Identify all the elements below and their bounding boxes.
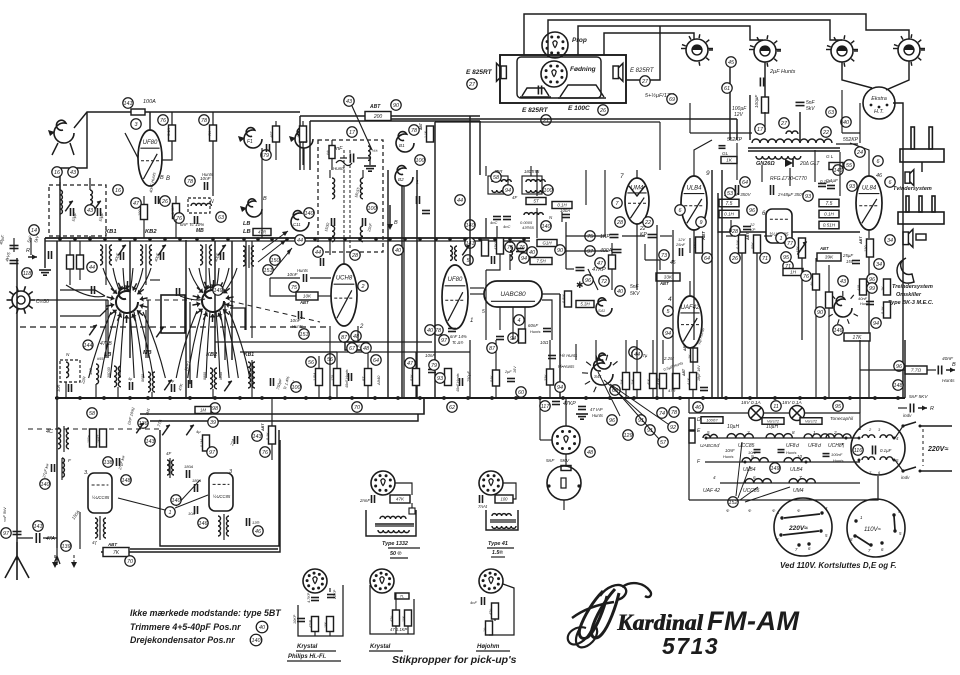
svg-text:2µF: 2µF	[504, 370, 512, 374]
svg-text:34: 34	[876, 262, 882, 268]
wire am if top	[486, 166, 531, 176]
svg-text:6: 6	[889, 180, 892, 186]
trim ant1	[65, 201, 72, 212]
ref 46b	[693, 402, 703, 412]
resistor 01M L	[200, 435, 210, 451]
resistor 1M b	[631, 373, 641, 390]
wire v f	[626, 340, 637, 362]
ref 116	[853, 445, 863, 455]
svg-text:0.1H: 0.1H	[824, 212, 834, 217]
circled extra l	[885, 235, 895, 245]
note line1	[130, 608, 281, 618]
psu vert wires	[737, 143, 840, 196]
switch 220 bot	[901, 467, 952, 473]
svg-text:47K: 47K	[396, 497, 405, 502]
label 100A	[143, 99, 156, 105]
svg-text:4.7KP: 4.7KP	[307, 592, 311, 603]
wire ref1 lines	[118, 480, 208, 510]
speaker panel box	[500, 55, 626, 103]
logo monogram crossbar	[572, 602, 614, 618]
svg-text:40nF Hunts: 40nF Hunts	[456, 373, 460, 392]
svg-text:22: 22	[644, 220, 651, 226]
ref 96p	[747, 205, 757, 215]
label 2nF10	[127, 406, 136, 425]
svg-text:96: 96	[585, 278, 591, 284]
box 7.5 left	[719, 199, 739, 207]
ref 1ucc	[776, 233, 786, 243]
svg-text:KB2: KB2	[206, 352, 217, 358]
svg-text:UAF42: UAF42	[681, 305, 700, 311]
svg-text:67: 67	[349, 346, 356, 352]
svg-text:17K: 17K	[853, 335, 863, 341]
svg-text:151: 151	[264, 268, 273, 274]
svg-text:4ƒ: 4ƒ	[92, 540, 98, 545]
wire r76	[162, 112, 172, 160]
FM antenna	[48, 120, 74, 155]
wire x130	[129, 241, 131, 358]
svg-text:4: 4	[713, 475, 716, 480]
cap 01uF top	[820, 179, 835, 189]
plug 2pin body	[900, 149, 944, 162]
svg-text:1K5T: 1K5T	[97, 434, 101, 443]
label 1 b2	[416, 180, 419, 186]
svg-text:90: 90	[393, 103, 399, 109]
label Hojohm	[476, 644, 510, 651]
svg-text:UF80: UF80	[143, 140, 158, 146]
ref 140r	[465, 220, 475, 230]
mains trafo secondary	[756, 156, 801, 159]
svg-text:E 825RT: E 825RT	[522, 107, 549, 114]
ref 94b	[555, 382, 565, 392]
main bus dots	[55, 396, 900, 400]
ref 60b	[516, 387, 526, 397]
ref 6ul	[675, 205, 685, 215]
svg-text:GL: GL	[722, 151, 729, 156]
svg-text:96: 96	[749, 208, 755, 214]
svg-text:0.51H: 0.51H	[823, 223, 836, 228]
svg-text:1: 1	[780, 236, 783, 242]
cap 18uF	[697, 365, 708, 391]
heater row1	[705, 437, 860, 439]
dial lamp 1	[681, 34, 713, 66]
earth aerial	[5, 542, 29, 580]
svg-text:#800: #800	[219, 372, 223, 380]
svg-text:28: 28	[731, 229, 738, 235]
svg-text:4℗: 4℗	[810, 281, 814, 286]
svg-text:10K: 10K	[303, 294, 312, 299]
wire uaf links	[690, 170, 722, 398]
coil N	[188, 198, 214, 213]
svg-text:16V: 16V	[513, 366, 517, 373]
resistor 1M a	[620, 373, 630, 390]
svg-text:44: 44	[89, 265, 95, 271]
svg-text:129: 129	[624, 433, 633, 439]
svg-text:95: 95	[835, 404, 842, 410]
inner panel	[517, 57, 601, 98]
svg-text:Ved 110V. Kortsluttes D,E og: Ved 110V. Kortsluttes D,E og F.	[780, 561, 897, 570]
kp cap 10KP	[293, 614, 305, 624]
ho res B	[483, 621, 493, 635]
gang rect mid	[161, 295, 185, 333]
resistor heater	[754, 94, 769, 113]
drum coil bot	[858, 457, 896, 462]
dashed FM IF box	[318, 140, 383, 252]
svg-text:47KΩ: 47KΩ	[494, 240, 498, 250]
label 110V circ	[864, 527, 882, 533]
label 471KP	[390, 627, 407, 632]
coil row2 a	[742, 458, 768, 462]
svg-text:LB: LB	[243, 229, 251, 235]
dashed arrow a	[52, 555, 58, 568]
ref 78f	[669, 407, 679, 417]
wire psu v2	[690, 103, 860, 143]
ref 43b	[68, 167, 78, 177]
svg-text:117: 117	[541, 404, 551, 410]
wire mid h340	[215, 342, 470, 352]
ref 90d	[555, 245, 565, 255]
kr res B	[402, 610, 412, 626]
ref 96z	[894, 361, 904, 371]
dial lamp 3	[826, 35, 858, 67]
svg-text:10KP: 10KP	[293, 614, 297, 624]
wire abt200	[300, 115, 480, 117]
box 5T	[526, 198, 546, 205]
label 6 ucc	[762, 211, 766, 217]
lamp 18V b	[782, 400, 805, 421]
cap 47A	[36, 533, 55, 543]
note line3	[130, 634, 262, 646]
IF group 2	[140, 244, 166, 268]
svg-text:10µH: 10µH	[766, 424, 778, 430]
ref 100k	[291, 382, 301, 392]
svg-text:50 ℗: 50 ℗	[390, 551, 401, 557]
svg-text:39K: 39K	[825, 255, 834, 261]
label Ch30	[36, 299, 49, 305]
wire top mid	[497, 170, 537, 196]
label E100C	[568, 105, 590, 112]
svg-text:B: B	[166, 176, 170, 182]
svg-text:100: 100	[138, 209, 142, 216]
resistor 1K5T	[97, 429, 107, 447]
svg-text:43: 43	[840, 279, 846, 285]
svg-text:70: 70	[354, 405, 360, 411]
svg-text:KB2: KB2	[145, 229, 157, 235]
svg-text:3: 3	[747, 430, 750, 435]
wire top nest 3	[578, 26, 763, 55]
resistor 5T row	[362, 369, 372, 386]
ref 140m	[171, 495, 181, 505]
kr box	[395, 593, 409, 599]
svg-text:ABT: ABT	[261, 423, 265, 432]
heater row3	[720, 482, 860, 484]
svg-text:17: 17	[757, 127, 764, 133]
speaker left	[497, 63, 507, 81]
svg-text:200: 200	[373, 114, 383, 120]
svg-text:UF80: UF80	[448, 277, 463, 283]
tube UCC85 a	[88, 473, 112, 513]
cap 10nF u2a	[287, 268, 309, 282]
svg-text:1H: 1H	[790, 270, 797, 275]
svg-text:KP: KP	[750, 227, 756, 232]
svg-text:47A: 47A	[46, 536, 56, 542]
svg-text:0.1M: 0.1M	[736, 240, 740, 249]
svg-text:40: 40	[427, 328, 433, 334]
circled extra t	[85, 205, 95, 215]
svg-text:MB: MB	[196, 228, 204, 234]
circled extra c	[543, 185, 553, 195]
wire v c	[189, 384, 191, 398]
cap 100nF h	[823, 452, 844, 463]
wire row links	[66, 382, 213, 398]
fm if cap L	[324, 218, 334, 232]
label 5nF 5KV	[630, 284, 640, 297]
cap 40uF a	[0, 234, 18, 248]
svg-text:ABT: ABT	[659, 281, 669, 286]
ref 63m	[216, 212, 226, 222]
fm if cap R	[363, 218, 374, 233]
svg-text:6: 6	[679, 208, 682, 214]
svg-text:0680: 0680	[141, 374, 145, 382]
kp cap 22KP	[327, 589, 337, 600]
IF group 3	[200, 244, 226, 268]
ref 48t	[351, 331, 361, 341]
box outer rect	[101, 440, 280, 552]
coil 43nF55	[520, 213, 553, 230]
ref 118	[22, 268, 32, 278]
svg-text:97: 97	[209, 450, 216, 456]
label 220V circ	[788, 525, 808, 532]
coil 0680	[141, 372, 155, 392]
wire det2	[566, 222, 672, 290]
cap 40nF mix	[148, 172, 158, 204]
svg-text:44: 44	[457, 198, 463, 204]
svg-text:118: 118	[23, 271, 32, 277]
fm if coil R	[360, 178, 363, 199]
plug 3pin prong A	[906, 196, 909, 212]
svg-text:76: 76	[262, 450, 268, 456]
ref 76m	[174, 213, 184, 223]
svg-text:16: 16	[54, 170, 60, 176]
ref 148L	[121, 475, 131, 485]
svg-text:146: 146	[199, 521, 208, 527]
wire b2 drop	[403, 186, 405, 398]
box ABT39K	[817, 246, 841, 261]
svg-text:Tonecaphil: Tonecaphil	[830, 416, 854, 422]
svg-text:8: 8	[792, 430, 795, 435]
ref 26m	[160, 196, 170, 206]
ref 56b	[325, 354, 335, 364]
svg-text:UCH8¶: UCH8¶	[828, 443, 845, 449]
ref 78a	[199, 115, 209, 125]
cap 6nF	[180, 216, 204, 234]
ref 138	[103, 457, 113, 467]
svg-text:180A: 180A	[192, 478, 202, 483]
cap 100A det	[560, 208, 570, 218]
cap 25nF	[675, 237, 686, 256]
ref 140f	[304, 208, 314, 218]
psu bottom wires	[718, 220, 731, 398]
box 0.1H left	[719, 210, 739, 218]
svg-text:12V: 12V	[734, 112, 744, 118]
svg-text:58: 58	[493, 175, 499, 181]
ant coil 2	[90, 190, 101, 216]
ref 46L	[253, 526, 263, 536]
box vers b	[800, 418, 822, 425]
ref 27b	[640, 76, 650, 86]
ref 55	[844, 160, 854, 170]
svg-text:40: 40	[529, 250, 535, 256]
svg-text:4F: 4F	[166, 451, 171, 456]
arc link star1	[66, 285, 205, 300]
ref 21	[541, 115, 551, 125]
tube UL84 right	[856, 176, 882, 230]
wire x215	[214, 241, 216, 358]
svg-text:ABT: ABT	[746, 232, 750, 241]
svg-text:5.1K: 5.1K	[266, 432, 270, 440]
label 47K row	[177, 383, 184, 391]
label KB1	[105, 229, 117, 235]
plug 2pin prong B	[929, 127, 932, 149]
uabc wires	[470, 288, 552, 340]
label 5 UABC80 h	[700, 430, 720, 449]
wire v d	[251, 241, 253, 398]
svg-text:149: 149	[771, 466, 780, 472]
label 5nF5KV z	[909, 394, 928, 400]
ref 95h	[833, 401, 843, 411]
svg-text:98: 98	[212, 406, 218, 412]
trafo 4C	[46, 426, 69, 452]
coil row1 c	[804, 434, 829, 438]
wire mid verticals2	[657, 225, 673, 398]
svg-text:Vers?2: Vers?2	[767, 419, 780, 423]
dashed gang line low	[20, 326, 330, 328]
ref 87u	[339, 332, 349, 342]
svg-text:24: 24	[856, 150, 863, 156]
svg-text:Hunts: Hunts	[723, 454, 733, 459]
svg-text:UCC85: UCC85	[738, 443, 755, 449]
label KB2	[145, 229, 157, 235]
label Treinder1	[892, 284, 933, 290]
ref 74f	[657, 408, 667, 418]
resistor ABT130	[859, 236, 874, 257]
drum circle	[851, 421, 905, 475]
coil row2 b	[784, 458, 810, 462]
svg-text:47: 47	[597, 261, 604, 267]
am if extra	[510, 238, 537, 270]
coil 0800	[203, 368, 223, 389]
sel110 pins	[853, 513, 896, 546]
svg-text:152: 152	[729, 500, 738, 506]
label 552KP b	[836, 137, 859, 144]
svg-text:100: 100	[368, 206, 377, 212]
label RFG	[770, 176, 807, 182]
ref 63	[826, 107, 836, 117]
svg-text:0800: 0800	[203, 372, 207, 380]
svg-text:73: 73	[661, 253, 667, 259]
wire gang v1	[185, 240, 187, 398]
wire lamp feed	[729, 60, 731, 140]
svg-text:MB: MB	[143, 350, 152, 356]
gang wire orth1	[60, 290, 108, 316]
svg-text:ABT: ABT	[683, 343, 687, 352]
resistor ABT1K	[683, 343, 698, 362]
svg-text:100n: 100n	[87, 435, 91, 443]
label 150A	[71, 509, 81, 520]
ho wires	[489, 584, 514, 635]
svg-text:N: N	[210, 199, 214, 205]
svg-text:116: 116	[854, 448, 863, 454]
svg-text:30D30: 30D30	[107, 367, 111, 378]
svg-text:64: 64	[704, 256, 710, 262]
ref 141a	[123, 98, 133, 108]
svg-text:7.5H: 7.5H	[536, 259, 546, 264]
svg-text:4µ: 4µ	[196, 429, 201, 434]
ref 152	[728, 497, 738, 507]
wire tap	[860, 369, 936, 371]
svg-text:92: 92	[670, 425, 676, 431]
svg-text:5713: 5713	[662, 633, 719, 659]
svg-text:78: 78	[201, 118, 207, 124]
circled extra m	[455, 195, 465, 205]
svg-text:1K: 1K	[881, 286, 885, 291]
circled extra k	[847, 181, 857, 191]
arrows to C11	[258, 231, 292, 275]
wire am tie	[486, 218, 497, 238]
svg-text:140: 140	[542, 224, 551, 230]
svg-text:96: 96	[869, 277, 875, 283]
ant coil 1	[60, 190, 74, 236]
plug 3pin prong C	[932, 196, 935, 212]
svg-text:18V 0.1A: 18V 0.1A	[741, 400, 761, 406]
svg-text:Hunts: Hunts	[202, 172, 214, 177]
fan lines refs	[598, 372, 668, 439]
ref 129	[623, 430, 633, 440]
svg-text:Vers?2: Vers?2	[805, 419, 818, 423]
wire uabc	[470, 294, 560, 340]
svg-text:9: 9	[706, 170, 710, 177]
sel110 links	[856, 516, 895, 545]
svg-text:10nF: 10nF	[290, 318, 302, 323]
circled extra b	[503, 185, 513, 195]
curl C10	[289, 128, 313, 148]
label GL1K	[721, 151, 737, 164]
wire grid bus	[125, 133, 138, 158]
cap 10A	[188, 506, 198, 516]
big socket mid	[547, 466, 581, 500]
svg-text:43: 43	[87, 208, 93, 214]
svg-text:R: R	[930, 406, 934, 412]
circled extra e	[615, 217, 625, 227]
svg-text:1M: 1M	[200, 408, 206, 413]
svg-text:48: 48	[587, 450, 593, 456]
ref 1L	[165, 507, 175, 517]
wire tb2	[503, 483, 516, 499]
label 6nF tc	[450, 334, 467, 345]
label E h	[697, 428, 701, 434]
uch81 extra	[313, 238, 360, 266]
svg-text:72: 72	[601, 279, 607, 285]
logo monogram top swash	[600, 583, 651, 600]
label B u3	[166, 176, 170, 182]
label 1KP	[600, 234, 619, 240]
svg-text:139: 139	[62, 544, 71, 550]
circled extra i	[740, 177, 750, 187]
ref 76d	[505, 242, 515, 252]
svg-text:5KV: 5KV	[630, 291, 640, 297]
cap 4nC b	[503, 217, 511, 230]
svg-text:7: 7	[620, 173, 624, 180]
box ABT7K	[103, 542, 129, 557]
